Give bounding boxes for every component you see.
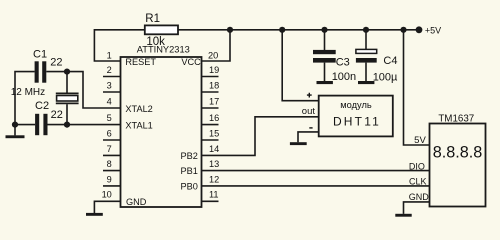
svg-text:13: 13 [209,159,219,169]
svg-text:22: 22 [50,57,62,69]
ground C3 [317,81,333,84]
capacitor C3 [313,30,336,81]
node junction TM1637 5V [400,27,406,33]
svg-text:2: 2 [107,65,112,75]
wire C2 left [15,124,35,126]
svg-text:14: 14 [209,144,219,154]
svg-text:VCC: VCC [181,57,201,67]
svg-text:10: 10 [102,190,112,200]
svg-text:PB0: PB0 [181,181,198,191]
svg-text:7: 7 [107,144,112,154]
svg-text:15: 15 [209,128,219,138]
wire pin10 GND to ground [94,201,120,213]
label plus DHT11 [307,93,312,98]
node junction VCC [227,27,233,33]
crystal X1 12MHz [56,93,79,103]
svg-text:CLK: CLK [409,176,427,186]
svg-text:XTAL2: XTAL2 [125,104,152,114]
svg-text:DHT11: DHT11 [333,114,381,128]
svg-text:11: 11 [209,190,219,200]
wire pin13 to DIO [202,170,430,172]
ground left [6,125,25,139]
svg-text:8.8.8.8: 8.8.8.8 [433,144,483,162]
svg-text:out: out [302,106,316,117]
svg-text:12 MHz: 12 MHz [11,87,45,98]
ground C4 [358,81,374,84]
node B junction XTAL1 [64,122,70,128]
svg-text:PB2: PB2 [181,151,198,161]
wire +5V to DHT11 plus [282,30,319,101]
wire R1 left to RESET pin1 [94,30,145,61]
svg-text:4: 4 [107,96,112,106]
svg-text:XTAL1: XTAL1 [125,120,152,130]
svg-text:16: 16 [209,113,219,123]
svg-text:C1: C1 [33,49,47,61]
svg-text:PB1: PB1 [181,166,198,176]
svg-text:C2: C2 [35,100,49,112]
module TM1637 box [430,124,486,207]
svg-text:R1: R1 [145,13,160,25]
wire crystal stem top [66,72,68,93]
node junction C2 ground [12,122,18,128]
wire C2 to pin5 [48,124,121,126]
svg-text:100µ: 100µ [373,72,398,84]
wire node A to pin4 [67,72,121,108]
pin stubs right 19,18,17,16,15,11 [202,77,219,202]
wire DHT11 minus to ground [298,132,319,142]
wire DHT11 out to pin14 PB2 [202,117,319,156]
svg-text:RESET: RESET [125,57,156,67]
ground pin10 [86,213,103,216]
svg-text:ATTINY2313: ATTINY2313 [137,45,190,55]
svg-text:DIO: DIO [409,161,425,171]
label minus DHT11 [309,127,312,128]
node junction C4 [363,27,369,33]
svg-text:модуль: модуль [340,100,372,110]
wire C1 to node A [46,71,67,73]
pin stubs left 2,3,6,7,8,9 [103,77,121,186]
svg-text:9: 9 [107,174,112,184]
ground DHT11 [290,142,307,145]
svg-text:TM1637: TM1637 [438,113,474,124]
svg-text:5V: 5V [414,135,426,146]
svg-text:5: 5 [107,113,112,123]
svg-text:19: 19 [209,65,219,75]
svg-text:3: 3 [107,80,112,90]
node terminal +5V [416,26,423,33]
svg-text:+5V: +5V [425,25,441,35]
svg-text:20: 20 [208,50,218,60]
ground TM1637 [395,214,411,217]
svg-text:18: 18 [209,80,219,90]
svg-text:GND: GND [409,192,430,202]
capacitor C1 [35,61,47,82]
svg-text:12: 12 [209,174,219,184]
svg-text:17: 17 [209,96,219,106]
svg-text:22: 22 [51,109,63,121]
node A junction XTAL2 [64,69,70,75]
wire crystal stem bottom [66,104,68,124]
svg-text:C4: C4 [383,55,397,67]
wire TM1637 GND to ground [404,202,430,214]
svg-text:C3: C3 [336,56,350,68]
wire pin12 to CLK [202,185,430,187]
wire +5V rail [178,29,419,31]
wire VCC drop to pin20 [202,30,231,61]
node junction DHT plus [279,27,285,33]
svg-text:8: 8 [107,159,112,169]
wire +5V to TM1637 5V [404,30,430,145]
svg-text:1: 1 [107,50,112,60]
capacitor C4 polarized [356,30,377,81]
svg-text:100n: 100n [332,71,356,83]
svg-text:GND: GND [126,197,147,207]
module DHT11 box [319,96,393,137]
node junction C3 [321,27,327,33]
resistor R1 [145,25,178,34]
capacitor C2 [35,114,47,135]
op IC U1 ATTINY2313 body [121,57,202,207]
svg-text:6: 6 [107,128,112,138]
wire left rail C1 to C2 [15,72,35,125]
